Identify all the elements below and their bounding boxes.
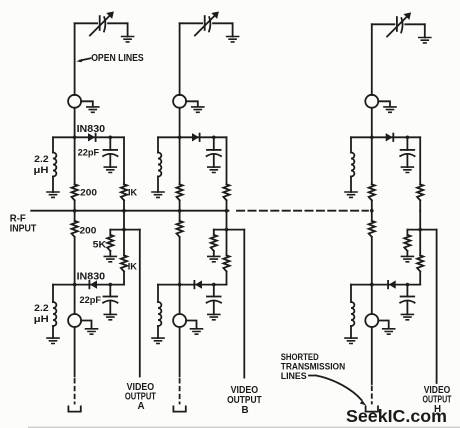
wire: circle J-C1 ground tap — [378, 101, 390, 105]
wire: bus to junction row column C — [419, 211, 421, 256]
wire: 1K to bus column C — [419, 200, 421, 210]
svg-text:μH: μH — [34, 164, 49, 175]
transmission line end bracket column A — [68, 406, 80, 411]
ground (upper inductor column B) — [151, 192, 165, 197]
wire: column C top horizontal — [372, 23, 425, 25]
ground (upper capacitor column C) — [401, 167, 415, 172]
wire: row1 to capacitor column B — [213, 137, 215, 150]
ground (circle J-B1) — [191, 107, 205, 112]
capacitor 22pF (lower) column C — [401, 296, 415, 298]
wire: tap to 5K column A — [109, 230, 111, 257]
inductor 2.2uH (lower) column A — [53, 302, 56, 326]
ground (lower inductor column A) — [46, 338, 60, 343]
connector J-B2 (lower coax circle) — [173, 314, 186, 327]
junction: row1 main node column A — [73, 136, 77, 140]
wire: 200 to bus column A — [74, 200, 76, 210]
capacitor 22pF (upper) column A — [104, 149, 118, 151]
variable capacitor C-tune column B — [204, 16, 206, 30]
ground (upper capacitor column B) — [207, 167, 221, 172]
resistor 1K (upper) column B — [223, 184, 229, 200]
ground (circle J-C1) — [383, 107, 397, 112]
capacitor 22pF (upper) column C — [401, 149, 415, 151]
wire: inductor to ground column A — [52, 177, 54, 193]
svg-text:μH: μH — [34, 313, 49, 324]
connector J-A2 (lower coax circle) — [68, 314, 81, 327]
wire: column B top horizontal — [180, 22, 233, 24]
svg-text:5K: 5K — [93, 238, 107, 249]
wire: column A top horizontal — [75, 22, 128, 24]
wire: lower 1K to row2 column B — [226, 271, 228, 284]
resistor 200 (lower) column C — [369, 221, 375, 237]
ground (lower inductor column B) — [151, 338, 165, 343]
wire: row1 right branch down column A — [123, 137, 125, 184]
junction: bus x main column A — [73, 209, 77, 213]
svg-text:INPUT: INPUT — [10, 224, 37, 235]
capacitor 22pF (lower) column B — [207, 296, 221, 298]
resistor 200 (upper) column B — [177, 184, 183, 200]
connector J-C1 (upper coax circle) — [365, 95, 378, 108]
wire: lower inductor to ground column C — [350, 326, 352, 338]
ground (circle J-A2) — [85, 329, 99, 334]
wire: video output line column A — [139, 230, 141, 377]
svg-text:LINES: LINES — [281, 370, 307, 381]
diode 1N830 (upper) column A — [88, 134, 94, 141]
capacitor 22pF (lower) column A — [104, 296, 118, 298]
junction: row1 main node column B — [178, 136, 182, 140]
wire: row1 left branch down column C — [350, 137, 352, 152]
wire: capacitor to ground column B — [213, 154, 215, 167]
wire: row2 to lower capacitor column C — [406, 285, 408, 297]
diode 1N830 (lower) column A — [91, 281, 97, 288]
wire: diode row 2 horizontal column B — [158, 284, 227, 286]
wire: 1K to bus column A — [123, 200, 125, 210]
wire: row1 main node down column A — [74, 137, 76, 184]
wire: dashed transmission line column A — [74, 379, 76, 404]
ground (5K column B) — [207, 256, 221, 261]
wire: tap row horizontal column A — [110, 229, 140, 231]
ground (circle J-B2) — [190, 329, 204, 334]
resistor 5K column C — [404, 235, 410, 251]
ground (upper inductor column A) — [46, 192, 60, 197]
wire: bus to lower 200 column A — [74, 211, 76, 221]
wire: bus to junction row column B — [226, 211, 228, 256]
wire: R-F input bus (dashed) — [237, 210, 368, 212]
svg-text:B: B — [241, 405, 248, 416]
capacitor 22pF (upper) column B — [207, 149, 221, 151]
junction: row1 capacitor node column C — [406, 136, 410, 140]
wire: capacitor to ground column C — [406, 154, 408, 167]
wire: lower 200 to row2 column B — [179, 237, 181, 285]
wire: bus to lower 200 column B — [179, 211, 181, 221]
svg-text:IN830: IN830 — [77, 124, 106, 135]
svg-text:IK: IK — [128, 260, 137, 271]
resistor 1K (lower) column B — [223, 255, 229, 271]
wire: video output line column C — [436, 230, 438, 383]
wire: row2 left branch down column B — [157, 285, 159, 302]
wire: lower capacitor to ground column B — [213, 301, 215, 315]
wire: diode row 1 horizontal column C — [351, 136, 420, 138]
junction: bus x main column B — [178, 209, 182, 213]
diode 1N830 (lower) column B — [196, 281, 202, 288]
connector J-A1 (upper coax circle) — [68, 95, 81, 108]
inductor 2.2uH (upper) column A — [53, 153, 56, 177]
wire: column B stub vertical (circle top to corner) — [179, 23, 181, 95]
svg-text:2.2: 2.2 — [34, 302, 49, 313]
wire: 200 to bus column B — [179, 200, 181, 210]
wire: circle J-B2 ground tap — [186, 321, 196, 328]
ground (circle J-C2) — [382, 329, 396, 334]
wire: row2 left branch down column C — [350, 285, 352, 302]
wire: row1 left branch down column A — [52, 137, 54, 152]
junction: tap row column C — [418, 228, 422, 232]
wire: video output line column B — [243, 230, 245, 378]
junction: bus x right branch column B — [225, 209, 229, 213]
svg-text:22pF: 22pF — [78, 147, 100, 158]
ground (top of column C) — [418, 38, 432, 43]
transmission line end bracket column B — [173, 406, 185, 411]
junction: row2 main node column A — [73, 283, 77, 287]
svg-text:SeekIC.com: SeekIC.com — [346, 406, 447, 426]
resistor 1K (lower) column A — [121, 255, 127, 271]
ground (lower capacitor column B) — [207, 314, 221, 319]
svg-text:200: 200 — [80, 225, 97, 236]
ground (circle J-A1) — [86, 107, 100, 112]
wire: lower 200 to row2 column C — [371, 237, 373, 285]
wire: diode row 2 horizontal column C — [351, 284, 420, 286]
ground (top of column A) — [121, 37, 135, 42]
wire: circle J-C2 down column C — [371, 327, 373, 384]
wire: dashed transmission line column B — [179, 379, 181, 404]
connector J-B1 (upper coax circle) — [173, 95, 186, 108]
resistor 1K (upper) column C — [417, 184, 423, 200]
svg-text:OPEN LINES: OPEN LINES — [91, 53, 144, 64]
resistor 1K (lower) column C — [417, 255, 423, 271]
wire: diode row 1 horizontal column B — [158, 136, 227, 138]
ground (lower capacitor column C) — [401, 314, 415, 319]
wire: circle J-B2 down column B — [179, 327, 181, 377]
wire: row1 left branch down column B — [157, 137, 159, 152]
wire: lower capacitor to ground column C — [406, 301, 408, 315]
wire: 200 to bus column C — [371, 200, 373, 210]
svg-text:IN830: IN830 — [77, 271, 106, 282]
junction: row2 capacitor node column B — [212, 283, 216, 287]
wire: lower 200 to row2 column A — [74, 237, 76, 285]
diode 1N830 (lower) column C — [390, 281, 396, 288]
wire: row1 right branch down column C — [419, 137, 421, 184]
wire: diode row 2 horizontal column A — [53, 284, 124, 286]
wire: row1 to capacitor column C — [406, 137, 408, 150]
junction: row2 main node column B — [178, 283, 182, 287]
wire: row2 main to circle column B — [179, 285, 181, 314]
transmission line end bracket column C — [366, 406, 378, 411]
wire: row2 left branch down column A — [52, 285, 54, 302]
ground (5K column C) — [401, 256, 415, 261]
junction: row1 capacitor node column A — [109, 136, 113, 140]
resistor 200 (upper) column C — [369, 184, 375, 200]
svg-text:IK: IK — [128, 186, 137, 197]
wire: column B circle to diode row 1 — [179, 108, 181, 138]
svg-text:A: A — [137, 401, 144, 412]
resistor 5K column B — [211, 235, 217, 251]
wire: column A stub vertical (circle top to corner) — [74, 23, 76, 95]
wire: capacitor to ground column A — [109, 154, 111, 167]
resistor 200 (upper) column A — [72, 184, 78, 200]
arrow to shorted transmission line — [309, 376, 362, 401]
svg-text:22pF: 22pF — [80, 294, 102, 305]
wire: lower capacitor to ground column A — [109, 301, 111, 315]
wire: lower inductor to ground column B — [157, 326, 159, 338]
wire: bus to lower 200 column C — [371, 211, 373, 221]
ground (top of column B) — [226, 37, 240, 42]
junction: tap row column B — [225, 228, 229, 232]
wire: tap to 5K column C — [406, 230, 408, 257]
wire: lower 1K to row2 column C — [419, 271, 421, 284]
wire: column C top ground stub — [424, 24, 426, 37]
wire: row1 main node down column C — [371, 137, 373, 184]
wire: column B top ground stub — [232, 23, 234, 36]
wire: dashed transmission line column C — [371, 387, 373, 404]
wire: row1 right branch down column B — [226, 137, 228, 184]
ground (5K column A) — [104, 256, 118, 261]
junction: bus x right branch column A — [122, 209, 126, 213]
junction: bus x main column C — [370, 209, 374, 213]
connector J-C2 (lower coax circle) — [365, 314, 378, 327]
ground (lower capacitor column A) — [104, 314, 118, 319]
wire: 1K to bus column B — [226, 200, 228, 210]
wire: inductor to ground column C — [350, 177, 352, 193]
wire: column A circle to diode row 1 — [74, 108, 76, 138]
wire: circle J-A2 down column A — [74, 327, 76, 377]
wire: inductor to ground column B — [157, 177, 159, 193]
wire: R-F input bus (solid) — [31, 210, 228, 212]
wire: lower 1K to row2 column A — [123, 271, 125, 284]
ground (lower inductor column C) — [344, 338, 358, 343]
wire: row1 to capacitor column A — [109, 137, 111, 150]
ground (upper inductor column C) — [344, 192, 358, 197]
inductor 2.2uH (lower) column C — [351, 302, 354, 326]
junction: row2 main node column C — [370, 283, 374, 287]
wire: column C stub vertical (circle top to corner) — [371, 24, 373, 95]
wire: row2 main to circle column A — [74, 285, 76, 314]
junction: row1 capacitor node column B — [212, 136, 216, 140]
wire: lower inductor to ground column A — [52, 326, 54, 338]
junction: row1 main node column C — [370, 136, 374, 140]
variable capacitor C-tune column A — [99, 16, 101, 30]
diode 1N830 (upper) column B — [192, 134, 198, 141]
wire: column C circle to diode row 1 — [371, 108, 373, 138]
junction: tap row column A — [122, 228, 126, 232]
ground (upper capacitor column A) — [104, 167, 118, 172]
junction: row2 capacitor node column A — [109, 283, 113, 287]
junction: row2 capacitor node column C — [406, 283, 410, 287]
wire: row2 to lower capacitor column B — [213, 285, 215, 297]
bottom edge scan artifact — [28, 427, 460, 428]
wire: tap to 5K column B — [213, 230, 215, 257]
arrow to open line — [80, 58, 91, 60]
svg-text:200: 200 — [80, 186, 97, 197]
wire: column A top ground stub — [127, 23, 129, 36]
resistor 200 (lower) column A — [72, 221, 78, 237]
diode 1N830 (upper) column C — [386, 134, 392, 141]
resistor 200 (lower) column B — [177, 221, 183, 237]
wire: bus to junction row column A — [123, 211, 125, 256]
variable capacitor C-tune column C — [396, 17, 398, 31]
inductor 2.2uH (upper) column B — [158, 153, 161, 177]
svg-text:2.2: 2.2 — [34, 153, 49, 164]
wire: tap row horizontal column C — [407, 229, 436, 231]
resistor 5K column A — [107, 235, 113, 251]
wire: tap row horizontal column B — [214, 229, 245, 231]
wire: circle J-C2 ground tap — [378, 321, 388, 328]
wire: circle J-A2 ground tap — [81, 321, 91, 328]
wire: diode row 1 horizontal column A — [53, 136, 124, 138]
wire: row2 main to circle column C — [371, 285, 373, 314]
wire: circle J-B1 ground tap — [186, 101, 198, 105]
wire: circle J-A1 ground tap — [81, 101, 93, 105]
inductor 2.2uH (lower) column B — [158, 302, 161, 326]
inductor 2.2uH (upper) column C — [351, 153, 354, 177]
wire: row1 main node down column B — [179, 137, 181, 184]
wire: row2 to lower capacitor column A — [109, 285, 111, 297]
resistor 1K (upper) column A — [121, 184, 127, 200]
